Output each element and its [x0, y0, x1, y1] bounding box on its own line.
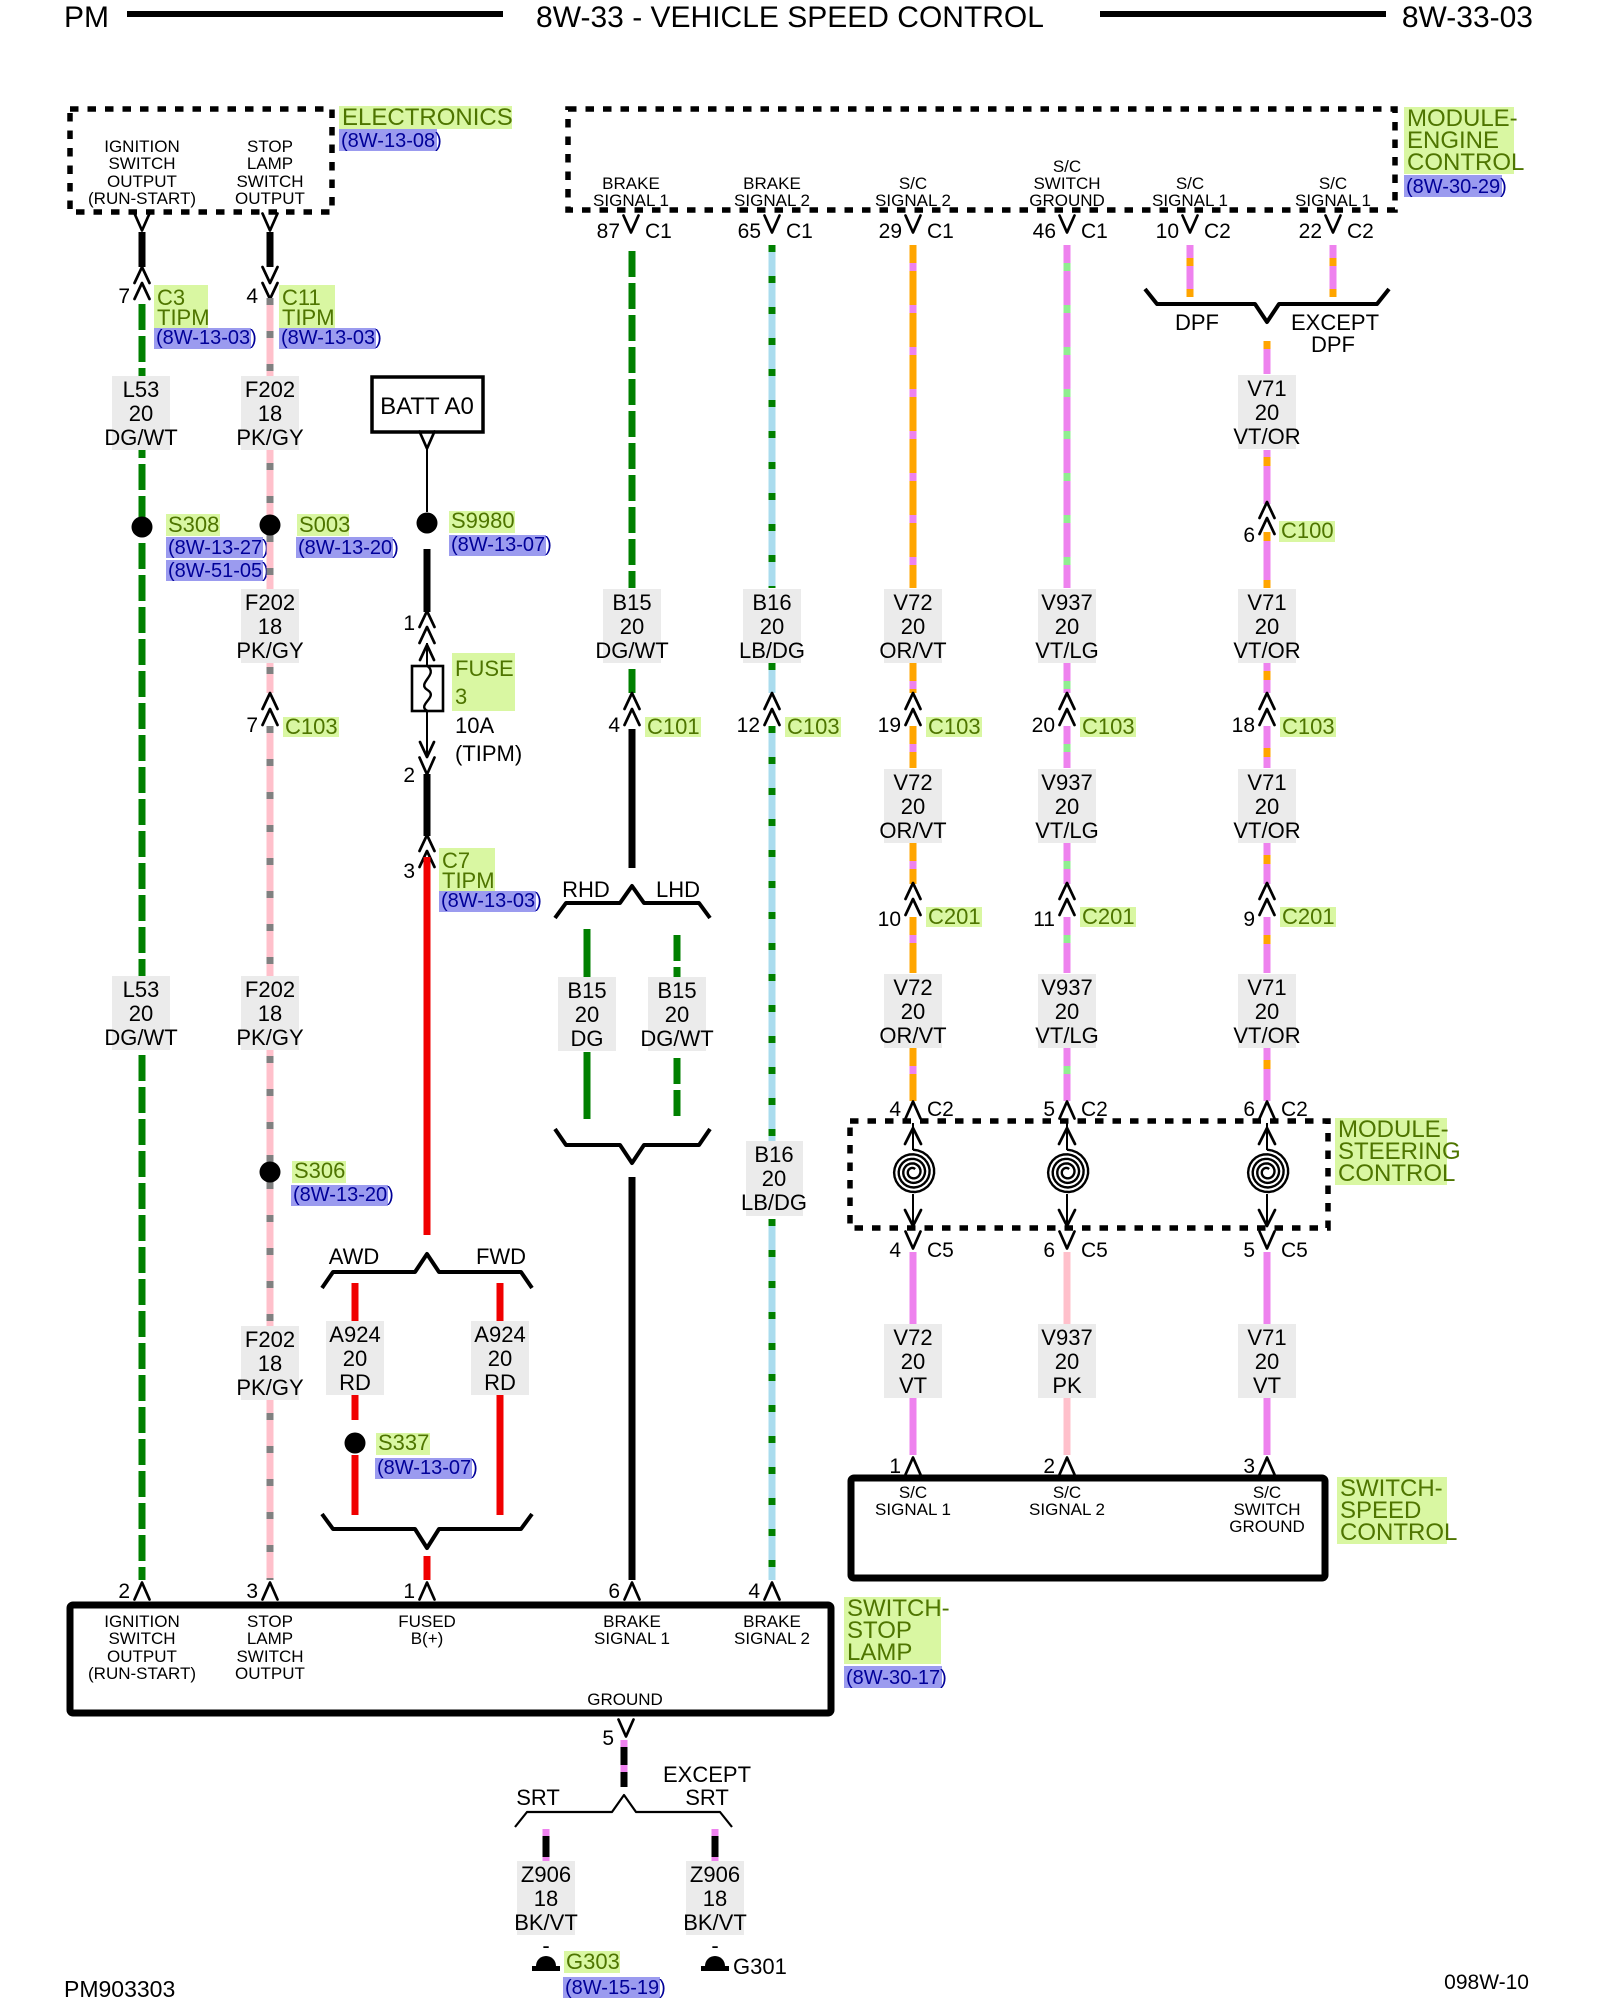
- svg-text:20: 20: [1255, 614, 1279, 639]
- svg-text:(8W-13-20): (8W-13-20): [293, 1184, 394, 1206]
- footer right: [1444, 1971, 1529, 1994]
- svg-text:L53: L53: [123, 977, 160, 1002]
- label wire V71 20 VT/OR (2): [1233, 589, 1300, 663]
- svg-text:PK: PK: [1052, 1373, 1082, 1398]
- label wire B16 20 LB/DG (lower): [741, 1141, 807, 1216]
- svg-text:10: 10: [878, 908, 901, 931]
- svg-text:18: 18: [703, 1886, 727, 1911]
- pin 2 (ignition switch output): [118, 1580, 149, 1603]
- module box ELECTRONICS (dashed): [70, 109, 332, 212]
- connector fuse pin 1 chevrons: [403, 611, 434, 643]
- header title: [536, 1, 1044, 34]
- svg-text:VT: VT: [1253, 1373, 1281, 1398]
- wire B15 DG/WT LHD branch: [674, 929, 681, 1119]
- svg-text:GROUND: GROUND: [1029, 191, 1105, 210]
- svg-text:VT/OR: VT/OR: [1233, 1023, 1300, 1048]
- node IGNITION SWITCH OUTPUT (RUN-START): [88, 137, 196, 208]
- svg-text:(8W-13-03): (8W-13-03): [441, 890, 542, 912]
- wire L53 DG/WT upper: [139, 298, 146, 1580]
- label AWD: [329, 1244, 380, 1269]
- brace SRT split: [515, 1795, 732, 1827]
- svg-text:C103: C103: [928, 714, 981, 739]
- svg-text:4: 4: [748, 1580, 760, 1603]
- label C103 (col2): [283, 714, 339, 739]
- module box MODULE-STEERING CONTROL (dashed): [850, 1121, 1328, 1228]
- label wire V937 20 PK: [1038, 1324, 1096, 1398]
- clockspring S/C signal 1: [894, 1123, 934, 1226]
- wire black stub ignition: [139, 232, 146, 267]
- svg-text:9: 9: [1243, 908, 1255, 931]
- svg-text:SIGNAL 2: SIGNAL 2: [1029, 1500, 1105, 1519]
- svg-text:C201: C201: [928, 904, 981, 929]
- label wire V937 20 VT/LG (3): [1035, 974, 1099, 1048]
- svg-text:B15: B15: [567, 978, 606, 1003]
- svg-text:(8W-13-08): (8W-13-08): [341, 130, 442, 152]
- svg-text:18: 18: [258, 1351, 282, 1376]
- svg-text:20: 20: [1055, 794, 1079, 819]
- svg-text:20: 20: [762, 1166, 786, 1191]
- svg-text:2: 2: [118, 1580, 130, 1603]
- svg-text:-: -: [542, 1933, 549, 1958]
- label wire B15 20 DG/WT (LHD): [640, 977, 713, 1051]
- svg-text:6: 6: [1243, 524, 1255, 547]
- svg-text:V71: V71: [1247, 975, 1286, 1000]
- pin 65 C1: [738, 216, 813, 244]
- svg-text:20: 20: [1055, 614, 1079, 639]
- svg-text:DG/WT: DG/WT: [640, 1026, 713, 1051]
- svg-text:C2: C2: [1081, 1098, 1108, 1121]
- svg-text:20: 20: [129, 401, 153, 426]
- connector C100 pin 6 chevrons: [1243, 502, 1274, 547]
- svg-text:S337: S337: [378, 1430, 429, 1455]
- svg-text:SIGNAL 1: SIGNAL 1: [594, 1629, 670, 1648]
- label S306: [291, 1158, 394, 1206]
- svg-text:Z906: Z906: [521, 1862, 571, 1887]
- pin 5 C2: [1043, 1098, 1108, 1121]
- footer left: [64, 1976, 175, 2000]
- svg-text:6: 6: [1043, 1239, 1055, 1262]
- svg-text:20: 20: [901, 614, 925, 639]
- svg-text:S9980: S9980: [451, 508, 515, 533]
- wire V71 VT lower: [1264, 1252, 1271, 1455]
- pin 3 (S/C switch ground): [1243, 1455, 1274, 1478]
- svg-text:(RUN-START): (RUN-START): [88, 189, 196, 208]
- label EXCEPT SRT: [663, 1762, 751, 1810]
- label SWITCH-STOP LAMP: [844, 1595, 950, 1689]
- svg-text:ELECTRONICS: ELECTRONICS: [342, 104, 513, 131]
- label S9980: [449, 508, 552, 556]
- label wire V72 20 OR/VT (2): [879, 769, 946, 843]
- wire V937 VT/LG column: [1064, 245, 1071, 1101]
- label FUSE 3 10A (TIPM): [452, 653, 522, 766]
- component box SWITCH-STOP LAMP: [70, 1605, 831, 1713]
- svg-text:FUSE: FUSE: [455, 656, 514, 681]
- header page number: [1402, 1, 1533, 34]
- svg-text:(8W-30-29): (8W-30-29): [1406, 176, 1507, 198]
- svg-text:SWITCH: SWITCH: [108, 1629, 175, 1648]
- svg-text:B15: B15: [612, 590, 651, 615]
- label S003: [296, 512, 399, 559]
- connector C103 pin 7 chevrons: [246, 693, 277, 737]
- svg-text:4: 4: [246, 285, 258, 308]
- svg-text:F202: F202: [245, 1327, 295, 1352]
- module box MODULE-ENGINE CONTROL (dashed): [568, 109, 1395, 210]
- svg-text:C201: C201: [1282, 904, 1335, 929]
- wire F202 PK/GY column: [267, 298, 274, 1580]
- wire V72 OR/VT column: [910, 245, 917, 1101]
- svg-text:20: 20: [575, 1002, 599, 1027]
- label C103 (col6): [926, 714, 982, 739]
- svg-text:5: 5: [1043, 1098, 1055, 1121]
- node BRAKE SIGNAL 1: [593, 174, 669, 210]
- label wire V72 20 OR/VT (3): [879, 974, 946, 1048]
- label wire V72 20 OR/VT (1): [879, 589, 946, 663]
- svg-text:LAMP: LAMP: [847, 1639, 912, 1666]
- label C201 (col9): [1280, 904, 1336, 929]
- label C101: [645, 714, 701, 739]
- node BRAKE SIGNAL 2 (switch): [734, 1612, 810, 1648]
- svg-text:DG/WT: DG/WT: [104, 425, 177, 450]
- svg-text:C2: C2: [1281, 1098, 1308, 1121]
- svg-text:S003: S003: [299, 512, 350, 537]
- svg-text:V937: V937: [1041, 975, 1092, 1000]
- label C100: [1279, 518, 1335, 543]
- label SWITCH-SPEED CONTROL: [1337, 1475, 1457, 1546]
- svg-text:C103: C103: [787, 714, 840, 739]
- label EXCEPT DPF: [1291, 310, 1379, 357]
- svg-text:OR/VT: OR/VT: [879, 638, 946, 663]
- label MODULE-ENGINE CONTROL: [1404, 105, 1524, 198]
- svg-text:(8W-51-05): (8W-51-05): [168, 560, 269, 582]
- svg-text:20: 20: [1255, 1349, 1279, 1374]
- svg-text:CONTROL: CONTROL: [1407, 149, 1524, 176]
- svg-text:FWD: FWD: [476, 1244, 526, 1269]
- svg-text:DG/WT: DG/WT: [104, 1025, 177, 1050]
- label RHD: [562, 877, 610, 902]
- brace RHD/LHD split: [555, 886, 710, 918]
- pin 5 C5: [1243, 1232, 1308, 1263]
- node STOP LAMP SWITCH OUTPUT (switch): [235, 1612, 305, 1683]
- wire B15 DG RHD branch: [584, 929, 591, 1119]
- svg-text:PK/GY: PK/GY: [236, 1375, 304, 1400]
- splice S003: [260, 515, 281, 536]
- splice S337: [345, 1433, 366, 1454]
- splice S306: [260, 1162, 281, 1183]
- svg-text:DPF: DPF: [1175, 310, 1219, 335]
- svg-text:C1: C1: [927, 220, 954, 243]
- pin 22 C2: [1299, 216, 1374, 244]
- svg-text:SIGNAL 1: SIGNAL 1: [593, 191, 669, 210]
- svg-text:19: 19: [878, 714, 901, 737]
- label C3 TIPM (8W-13-03): [154, 285, 257, 349]
- svg-text:B(+): B(+): [411, 1629, 444, 1648]
- pin chevron below BATT A0: [420, 432, 435, 449]
- label wire A924 20 RD (AWD): [326, 1321, 384, 1395]
- svg-text:B15: B15: [657, 978, 696, 1003]
- svg-text:87: 87: [597, 220, 620, 243]
- label wire V937 20 VT/LG (1): [1035, 589, 1099, 663]
- svg-text:20: 20: [1032, 714, 1055, 737]
- svg-text:4: 4: [608, 714, 620, 737]
- svg-text:2: 2: [403, 764, 415, 787]
- svg-text:20: 20: [1255, 999, 1279, 1024]
- node GROUND: [587, 1690, 663, 1709]
- svg-text:C1: C1: [786, 220, 813, 243]
- component box SWITCH-SPEED CONTROL: [851, 1478, 1325, 1578]
- brace AWD/FWD split: [322, 1254, 532, 1288]
- label ELECTRONICS: [339, 104, 513, 152]
- label C7 TIPM (8W-13-03): [439, 848, 542, 912]
- wire black brake signal 1 internal: [629, 729, 636, 868]
- pin chevron below ignition output: [135, 214, 150, 231]
- svg-text:20: 20: [760, 614, 784, 639]
- svg-text:C5: C5: [1281, 1239, 1308, 1262]
- label MODULE-STEERING CONTROL: [1335, 1116, 1461, 1187]
- svg-text:(8W-13-07): (8W-13-07): [377, 1457, 478, 1479]
- svg-text:12: 12: [737, 714, 760, 737]
- node BRAKE SIGNAL 2: [734, 174, 810, 210]
- svg-text:C2: C2: [927, 1098, 954, 1121]
- svg-text:6: 6: [1243, 1098, 1255, 1121]
- svg-text:C2: C2: [1204, 220, 1231, 243]
- svg-text:8W-33-03: 8W-33-03: [1402, 1, 1533, 34]
- label wire V937 20 VT/LG (2): [1035, 769, 1099, 843]
- svg-text:20: 20: [129, 1001, 153, 1026]
- svg-text:SIGNAL 2: SIGNAL 2: [734, 191, 810, 210]
- header rule left: [127, 11, 503, 17]
- svg-text:LAMP: LAMP: [247, 1629, 293, 1648]
- label wire L53 20 DG/WT (lower): [104, 976, 177, 1050]
- svg-text:VT/OR: VT/OR: [1233, 424, 1300, 449]
- svg-text:RD: RD: [484, 1370, 516, 1395]
- svg-text:VT/LG: VT/LG: [1035, 818, 1099, 843]
- label LHD: [656, 877, 700, 902]
- svg-text:C103: C103: [285, 714, 338, 739]
- svg-text:OR/VT: OR/VT: [879, 818, 946, 843]
- clockspring S/C switch ground: [1248, 1123, 1288, 1226]
- svg-text:SIGNAL 1: SIGNAL 1: [875, 1500, 951, 1519]
- node S/C SIGNAL 1 (switch): [875, 1483, 951, 1519]
- label G301: [733, 1954, 787, 1979]
- svg-text:V71: V71: [1247, 770, 1286, 795]
- connector C3 in-line chevrons pin 7: [118, 267, 149, 308]
- svg-text:A924: A924: [329, 1322, 380, 1347]
- wire A0 black below fuse: [424, 774, 431, 836]
- svg-text:DPF: DPF: [1311, 332, 1355, 357]
- svg-text:SRT: SRT: [685, 1785, 729, 1810]
- svg-text:C103: C103: [1282, 714, 1335, 739]
- connector C201 pin 10 chevrons: [878, 883, 921, 931]
- node S/C SIGNAL 1 (DPF): [1152, 174, 1228, 210]
- svg-text:5: 5: [602, 1727, 614, 1750]
- svg-text:V72: V72: [893, 1325, 932, 1350]
- svg-text:(TIPM): (TIPM): [455, 741, 522, 766]
- svg-text:-: -: [711, 1933, 718, 1958]
- svg-text:5: 5: [1243, 1239, 1255, 1262]
- pin 4 C2: [889, 1098, 954, 1121]
- svg-text:OR/VT: OR/VT: [879, 1023, 946, 1048]
- svg-text:V72: V72: [893, 975, 932, 1000]
- svg-text:DG: DG: [571, 1026, 604, 1051]
- svg-text:F202: F202: [245, 377, 295, 402]
- svg-text:18: 18: [258, 401, 282, 426]
- label C11 TIPM (8W-13-03): [279, 285, 382, 349]
- svg-text:20: 20: [901, 999, 925, 1024]
- svg-text:4: 4: [889, 1239, 901, 1262]
- pin 6 C5: [1043, 1232, 1108, 1263]
- battery feed BATT A0: [372, 377, 483, 432]
- svg-text:C1: C1: [1081, 220, 1108, 243]
- label wire B16 20 LB/DG (upper): [739, 589, 805, 663]
- svg-text:C5: C5: [927, 1239, 954, 1262]
- wire Z906 BK/VT stub from switch: [621, 1740, 628, 1787]
- svg-text:SIGNAL 2: SIGNAL 2: [875, 191, 951, 210]
- pin 1 (fused B+): [403, 1580, 434, 1603]
- svg-text:7: 7: [118, 285, 130, 308]
- label S308: [166, 512, 269, 582]
- label wire B15 20 DG: [558, 977, 616, 1051]
- svg-text:4: 4: [889, 1098, 901, 1121]
- wire V72 VT lower: [910, 1252, 917, 1455]
- svg-text:C101: C101: [647, 714, 700, 739]
- svg-text:18: 18: [534, 1886, 558, 1911]
- pin 46 C1: [1033, 216, 1108, 244]
- svg-text:LHD: LHD: [656, 877, 700, 902]
- connector C7 pin 3 chevrons: [403, 835, 434, 883]
- svg-text:BK/VT: BK/VT: [683, 1910, 747, 1935]
- svg-text:46: 46: [1033, 220, 1056, 243]
- svg-text:V71: V71: [1247, 590, 1286, 615]
- svg-text:10A: 10A: [455, 713, 494, 738]
- wire A924 RD AWD branch: [352, 1283, 359, 1515]
- svg-text:(8W-13-03): (8W-13-03): [281, 327, 382, 349]
- wire A924 RD FWD branch: [497, 1283, 504, 1515]
- connector C103 pin 12 chevrons: [737, 693, 780, 737]
- svg-text:20: 20: [620, 614, 644, 639]
- label wire Z906 18 BK/VT (except SRT): [683, 1861, 747, 1935]
- brace AWD/FWD merge: [322, 1514, 532, 1548]
- svg-text:DG/WT: DG/WT: [595, 638, 668, 663]
- svg-text:3: 3: [246, 1580, 258, 1603]
- svg-text:C201: C201: [1082, 904, 1135, 929]
- connector fuse pin 2 chevron: [403, 758, 434, 788]
- ground G303 symbol: [532, 1956, 560, 1971]
- splice S9980: [417, 513, 438, 534]
- svg-text:CONTROL: CONTROL: [1338, 1160, 1455, 1187]
- wire A0 black above fuse: [424, 549, 431, 612]
- wire black brake signal 1 to switch: [629, 1177, 636, 1580]
- label C103 (col5): [785, 714, 841, 739]
- pin 5 ground chevron: [602, 1720, 633, 1751]
- wire black stub stop lamp: [267, 232, 274, 267]
- svg-text:F202: F202: [245, 590, 295, 615]
- svg-text:SIGNAL 1: SIGNAL 1: [1152, 191, 1228, 210]
- svg-text:20: 20: [1055, 1349, 1079, 1374]
- pin 4 (brake signal 2): [748, 1580, 779, 1603]
- svg-text:20: 20: [1255, 794, 1279, 819]
- svg-text:V937: V937: [1041, 770, 1092, 795]
- wire V71 VT/OR stub (DPF pin 10): [1187, 245, 1194, 297]
- label FWD: [476, 1244, 526, 1269]
- svg-text:7: 7: [246, 714, 258, 737]
- label C201 (col6): [926, 904, 982, 929]
- label C103 (col9): [1280, 714, 1336, 739]
- svg-text:18: 18: [258, 614, 282, 639]
- brace RHD/LHD merge: [555, 1129, 710, 1163]
- svg-text:20: 20: [665, 1002, 689, 1027]
- fuse F3 10A TIPM: [412, 643, 443, 757]
- label wire A924 20 RD (FWD): [471, 1321, 529, 1395]
- wire V937 PK lower: [1064, 1252, 1071, 1455]
- pin 29 C1: [879, 216, 954, 244]
- svg-text:SIGNAL 2: SIGNAL 2: [734, 1629, 810, 1648]
- svg-text:BATT A0: BATT A0: [380, 393, 474, 420]
- svg-text:G303: G303: [566, 1949, 620, 1974]
- svg-text:PK/GY: PK/GY: [236, 638, 304, 663]
- svg-text:(8W-13-03): (8W-13-03): [156, 327, 257, 349]
- svg-text:C2: C2: [1347, 220, 1374, 243]
- label wire L53 20 DG/WT (upper): [104, 376, 177, 450]
- label wire F202 18 PK/GY (1): [236, 376, 304, 450]
- wire A924 RD main: [424, 857, 431, 1235]
- node FUSED B(+): [398, 1612, 456, 1648]
- svg-text:OUTPUT: OUTPUT: [235, 1664, 305, 1683]
- svg-text:20: 20: [1255, 400, 1279, 425]
- svg-text:3: 3: [403, 860, 415, 883]
- svg-text:LB/DG: LB/DG: [739, 638, 805, 663]
- connector C11 in-line chevrons pin 4: [246, 267, 277, 308]
- header rule right: [1100, 11, 1386, 17]
- wire A924 RD stub to switch: [424, 1556, 431, 1580]
- connector C201 pin 9 chevrons: [1243, 883, 1274, 931]
- wire Z906 BK/VT except-SRT branch: [712, 1829, 719, 1864]
- svg-text:SRT: SRT: [516, 1785, 560, 1810]
- node S/C SWITCH GROUND: [1029, 157, 1105, 210]
- svg-text:C100: C100: [1281, 518, 1334, 543]
- pin 4 C5: [889, 1232, 954, 1263]
- node S/C SIGNAL 1 (except DPF): [1295, 174, 1371, 210]
- svg-text:65: 65: [738, 220, 761, 243]
- label wire F202 18 PK/GY (3): [236, 976, 304, 1050]
- svg-text:G301: G301: [733, 1954, 787, 1979]
- wire B16 LB/DG column: [769, 245, 776, 1580]
- label DPF: [1175, 310, 1219, 335]
- svg-text:V71: V71: [1247, 1325, 1286, 1350]
- svg-text:1: 1: [403, 1580, 415, 1603]
- svg-text:11: 11: [1033, 908, 1055, 931]
- svg-text:VT/LG: VT/LG: [1035, 1023, 1099, 1048]
- brace DPF merge: [1145, 289, 1389, 322]
- svg-text:B16: B16: [754, 1142, 793, 1167]
- connector C101 pin 4 chevrons: [608, 693, 639, 737]
- svg-text:22: 22: [1299, 220, 1322, 243]
- svg-text:(8W-13-27): (8W-13-27): [168, 537, 269, 559]
- svg-text:B16: B16: [752, 590, 791, 615]
- svg-text:GROUND: GROUND: [587, 1690, 663, 1709]
- minus mark SRT: [542, 1933, 549, 1958]
- svg-text:LB/DG: LB/DG: [741, 1190, 807, 1215]
- svg-text:20: 20: [1055, 999, 1079, 1024]
- connector C201 pin 11 chevrons: [1033, 883, 1074, 931]
- svg-text:(8W-15-19): (8W-15-19): [565, 1977, 666, 1999]
- wire V71 VT/OR stub (except DPF pin 22): [1330, 245, 1337, 297]
- svg-text:20: 20: [488, 1346, 512, 1371]
- wire A0 thin to splice: [426, 447, 428, 512]
- node IGNITION SWITCH OUTPUT (RUN-START) (switch): [88, 1612, 196, 1683]
- svg-text:C103: C103: [1082, 714, 1135, 739]
- svg-text:1: 1: [403, 612, 415, 635]
- svg-text:8W-33 - VEHICLE SPEED CONTROL: 8W-33 - VEHICLE SPEED CONTROL: [536, 1, 1044, 34]
